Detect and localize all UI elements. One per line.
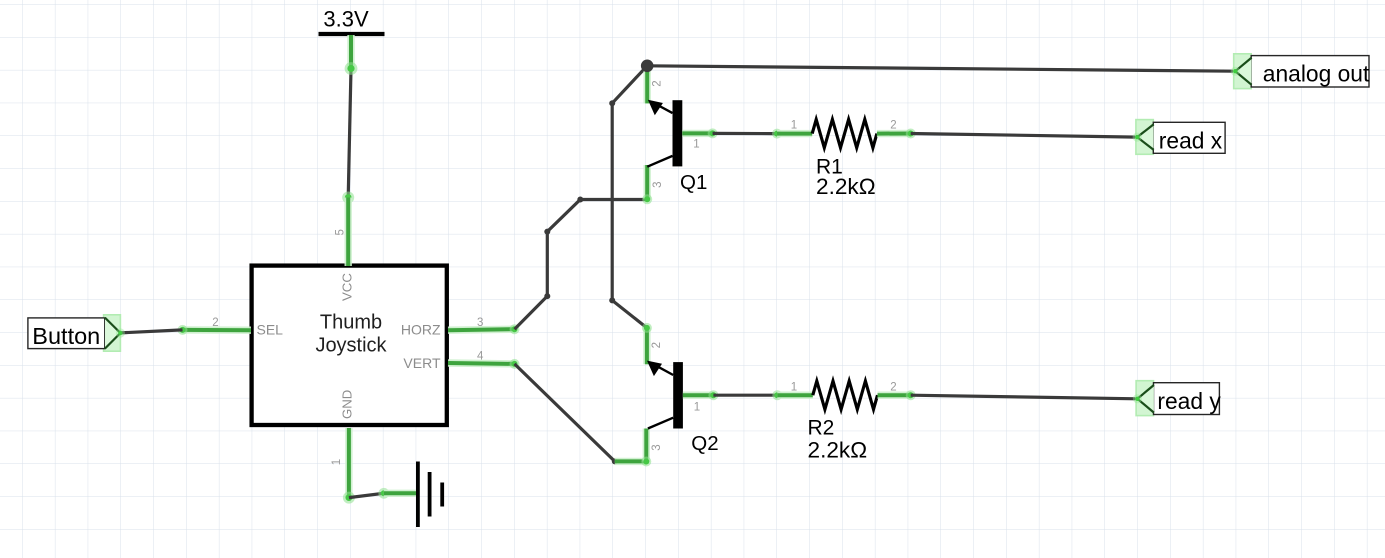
transistor Q2: [647, 361, 719, 455]
svg-text:1: 1: [331, 459, 343, 465]
wire: Q2 emitter pin stub (green): [643, 328, 650, 364]
node: wire bend on 3.3V net: [345, 62, 358, 75]
pin number 1 (GND): [331, 459, 343, 465]
wire: 3.3V to VCC (green segment from bar): [347, 35, 354, 69]
wire: to ground symbol (green): [384, 490, 418, 497]
svg-text:Joystick: Joystick: [315, 334, 387, 356]
wire: junction to analog out flag: [647, 66, 1235, 71]
pin number 3 (HORZ): [477, 317, 483, 329]
wire: R2 pin1 stub (green): [777, 392, 813, 399]
wire: VERT pin stub (green): [448, 359, 515, 367]
wire: GND bend (dark): [349, 493, 384, 497]
resistor R2: [808, 381, 878, 462]
ground: [418, 462, 442, 528]
svg-text:Q2: Q2: [691, 432, 718, 455]
svg-text:3.3V: 3.3V: [323, 6, 369, 31]
wire: Q1 base to R1 (dark): [713, 132, 777, 135]
svg-text:Thumb: Thumb: [320, 311, 382, 333]
svg-text:3: 3: [477, 317, 483, 329]
node: bend on ground wire: [378, 488, 389, 499]
svg-text:Button: Button: [32, 323, 100, 349]
node: R1 pin1 wire end: [772, 129, 782, 139]
svg-text:5: 5: [334, 229, 346, 235]
svg-text:1: 1: [791, 382, 797, 394]
node: bend: [577, 197, 583, 203]
wire: SEL pin stub (green): [183, 326, 252, 334]
svg-text:2.2kΩ: 2.2kΩ: [816, 174, 876, 199]
wire: R1 to read x flag (dark): [911, 134, 1137, 138]
svg-text:4: 4: [477, 350, 484, 362]
wire: SEL to Button flag (dark): [121, 330, 183, 333]
node: SEL wire end: [178, 325, 188, 335]
node: Q2 emitter wire end: [642, 323, 652, 333]
wire: Q1 collector pin stub (green): [644, 165, 651, 199]
node: bend: [544, 293, 550, 299]
pin number 1 (Q2 base): [694, 401, 700, 413]
svg-text:read y: read y: [1157, 388, 1221, 414]
wire: R1 pin2 stub (green): [877, 130, 911, 138]
thumb joystick module: [252, 266, 447, 425]
svg-text:analog out: analog out: [1263, 61, 1370, 87]
pin number 5 (VCC): [334, 229, 346, 235]
svg-text:1: 1: [694, 401, 700, 413]
transistor Q1: [647, 100, 707, 194]
wire: HORZ pin stub (green): [448, 329, 515, 330]
wire: GND pin stub (green): [345, 428, 352, 498]
node: Q1 collector wire end: [642, 194, 652, 204]
svg-text:HORZ: HORZ: [401, 322, 441, 338]
pin number 3 (Q2 collector): [651, 444, 663, 450]
svg-text:3: 3: [652, 181, 664, 187]
wire: VCC pin stub (green): [345, 198, 352, 267]
pin number 1 (R2): [791, 382, 797, 394]
node: R2 pin2 wire end: [906, 390, 916, 400]
svg-text:GND: GND: [340, 390, 355, 419]
wire: Q2 base pin stub (green): [683, 392, 714, 399]
node: R1 pin2 wire end: [906, 129, 916, 139]
node: bend: [544, 229, 550, 235]
svg-text:1: 1: [693, 139, 699, 151]
node: HORZ wire end: [510, 324, 520, 334]
node: VERT wire end: [510, 359, 520, 369]
svg-text:2: 2: [890, 382, 896, 394]
net label flag: analog out: [1231, 54, 1370, 89]
wire: Q2 base to R2 (dark): [713, 394, 777, 397]
net label flag: read y: [1133, 381, 1222, 416]
pin number 2 (Q1 emitter): [651, 80, 663, 86]
node: Q1 base wire end: [708, 128, 718, 138]
pin number 1 (Q1 base): [693, 139, 699, 151]
svg-text:2: 2: [212, 317, 218, 329]
node: Q2 collector wire end: [641, 457, 651, 467]
node: R2 pin1 wire end: [772, 390, 782, 400]
pin number 1 (R1): [791, 119, 797, 131]
pin number 2 (R1): [890, 119, 896, 131]
wire: Q2 collector pin stub (green): [643, 429, 650, 462]
pin number 2 (R2): [890, 382, 896, 394]
power symbol 3.3V: [319, 6, 385, 34]
pin number 4 (VERT): [477, 350, 484, 362]
svg-text:Q1: Q1: [680, 171, 707, 194]
node: junction dot: [641, 60, 654, 73]
wire: R1 pin1 stub (green): [777, 130, 812, 137]
wire: junction to Q2 emitter (dark polyline): [612, 66, 647, 328]
node: Q2 base wire end: [708, 390, 718, 400]
svg-text:SEL: SEL: [257, 322, 284, 338]
svg-text:2: 2: [651, 342, 663, 348]
node: bend: [609, 100, 615, 106]
net label flag: read x: [1133, 120, 1226, 155]
wire: bend to VCC pin (dark segment): [348, 69, 351, 198]
svg-text:1: 1: [791, 119, 797, 131]
wire: Q1 base pin stub (green): [682, 130, 712, 137]
pin number 2 (SEL): [212, 317, 218, 329]
wire: HORZ to Q1 collector (dark polyline): [515, 200, 647, 330]
svg-text:2.2kΩ: 2.2kΩ: [808, 437, 868, 462]
wire: VERT to Q2 collector (dark diagonal): [515, 364, 615, 462]
svg-text:read x: read x: [1159, 128, 1223, 154]
node: bend: [609, 297, 615, 303]
svg-text:3: 3: [651, 444, 663, 450]
wire: R2 pin2 stub (green): [878, 392, 911, 399]
resistor R1: [812, 119, 877, 198]
wire: R2 to read y flag (dark): [911, 395, 1138, 399]
node: wire bend above VCC pin: [342, 192, 354, 204]
svg-text:VCC: VCC: [340, 273, 355, 301]
node: bend: [612, 458, 618, 464]
svg-text:2: 2: [651, 80, 663, 86]
net label flag: Button: [28, 315, 125, 351]
svg-text:2: 2: [890, 119, 896, 131]
svg-text:VERT: VERT: [403, 355, 441, 371]
wire: Q1 emitter pin stub (green): [644, 66, 651, 103]
pin number 2 (Q2 emitter): [651, 342, 663, 348]
node: GND wire end: [343, 492, 355, 504]
pin number 3 (Q1 collector): [652, 181, 664, 187]
wire: bend to Q2 collector (green): [615, 458, 647, 465]
svg-text:R2: R2: [808, 416, 835, 439]
